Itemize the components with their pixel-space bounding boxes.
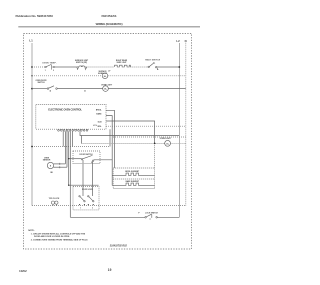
diagram border [24,34,192,250]
svg-text:19: 19 [108,268,112,272]
svg-text:FEF352AS: FEF352AS [102,14,117,18]
svg-text:BROIL ELEMENT: BROIL ELEMENT [125,171,140,173]
wire bake stub 2 [112,184,113,186]
wire N bus [185,43,187,206]
svg-text:ELECTRONIC OVEN CONTROL: ELECTRONIC OVEN CONTROL [48,109,82,112]
wire door switch exit [94,159,112,161]
wire drop 5 [69,131,71,217]
svg-text:LOCK SWITCH: LOCK SWITCH [145,212,158,214]
wire L2 bus [178,43,180,217]
wire rowB segment a [32,75,102,77]
svg-text:MDL: MDL [98,126,103,128]
header rule [18,26,200,28]
svg-text:SWITCH (RF): SWITCH (RF) [76,62,88,64]
wire rowB segment b [108,75,186,77]
svg-text:SL: SL [104,76,107,78]
svg-text:OL: OL [166,143,170,145]
wire latch drop 1 [82,160,84,196]
node junction feed-L1 [31,146,33,148]
svg-text:NOTE:: NOTE: [28,230,35,232]
svg-text:S: S [50,166,52,168]
switch S4 [47,86,57,90]
node junction rowB-L1 [31,75,32,76]
connector P1 pins [58,129,88,131]
wire rung1 segment c [87,66,115,68]
svg-text:2: 2 [53,70,54,72]
resistor R1 [115,65,131,67]
door switch box [73,151,100,164]
svg-text:TOD CLOCK: TOD CLOCK [49,198,60,200]
node junction rung1-L1 [31,66,33,68]
svg-text:N: N [185,39,187,43]
svg-text:BAKE: BAKE [96,113,102,116]
elements box divider [113,178,154,180]
wire light line b [171,142,186,144]
wire drop 3 [66,131,68,167]
wire bottom rung to L2 [157,216,179,218]
wire EOC exit MDL to N [106,125,186,127]
wire drop 2 [64,131,66,164]
svg-text:HEAT SWITCH: HEAT SWITCH [145,58,161,61]
wire rung2 segment c [108,88,186,90]
svg-text:OL: OL [104,89,108,91]
svg-text:SENSOR: SENSOR [43,159,51,161]
svg-text:DLB: DLB [98,121,102,123]
node junction rung2-L1 [31,88,33,90]
svg-text:WIRING (SCHEMATIC): WIRING (SCHEMATIC) [96,22,123,26]
wire door switch entry [69,158,82,160]
wire drop 6 [72,131,74,146]
svg-text:LF: LF [108,70,110,72]
svg-text:10/02: 10/02 [19,269,27,273]
switch S2 [77,66,87,70]
svg-text:2. CONNECTORS VIEWED FROM TER: 2. CONNECTORS VIEWED FROM TERMINAL SIDE … [31,238,88,241]
wire drop 4 [68,131,70,185]
wire drop 1 [62,131,64,146]
svg-text:L1: L1 [29,39,33,43]
wire L1 bus [31,43,33,206]
oven sensor stubs [54,163,66,165]
svg-text:P: P [138,212,140,214]
svg-text:SURF. UNIT: SURF. UNIT [117,62,128,64]
wire bake stub 1 [112,174,113,176]
svg-text:OVEN LIGHT: OVEN LIGHT [160,138,172,140]
door lock switch S6 [79,196,85,203]
door lock switch S7 [88,196,94,203]
wire light feed riser [81,136,83,144]
wire rung1 segment e [157,66,179,68]
EOC control board U1 [36,104,106,129]
svg-text:OVEN TEMP.: OVEN TEMP. [42,62,57,64]
switch S8 [145,214,158,219]
wire rung2 segment b [57,88,102,90]
wire rung2 segment a [32,88,47,90]
node junction rung1-L2 [178,66,180,68]
elements box [113,168,154,189]
wire latch drop 2 [92,161,94,196]
wire bottom rung solid [70,216,145,218]
svg-text:316418702 R02: 316418702 R02 [110,244,128,247]
svg-text:Publication No. 5995417953: Publication No. 5995417953 [16,14,54,18]
wire EOC exit broil [106,110,114,168]
svg-text:DOOR AND DOOR LOCKED IN OPEN.: DOOR AND DOOR LOCKED IN OPEN. [34,235,70,238]
wire EOC exit DLB [106,121,155,143]
wire rung1 segment a [32,66,45,68]
node junction DLB-light [154,143,156,145]
svg-text:BAKE ELEMENT: BAKE ELEMENT [126,180,140,183]
wire rung1 segment d [130,66,148,68]
wire mid dashed to N [113,136,186,138]
svg-text:BK: BK [50,172,53,174]
svg-text:2: 2 [92,208,93,210]
resistor R3 bake element [113,183,154,185]
lamp DS2 [103,86,109,92]
svg-text:1: 1 [80,208,81,210]
svg-text:DOOR LOCK: DOOR LOCK [82,189,94,191]
svg-text:1: 1 [45,70,46,72]
door lock box [73,186,99,210]
switch S1 [45,64,55,69]
oven sensor RT1 [47,162,53,168]
lamp DS3 [165,140,171,146]
switch S3 [148,62,158,69]
switch S4 terminal marks [50,90,51,91]
TOD clock M1 [51,201,58,206]
wire rung1 segment b [54,66,77,68]
svg-text:SWITCH: SWITCH [37,82,45,84]
wire latch feed horizontal [69,184,99,186]
door lock terminal marks [79,204,80,205]
door switch S5 [81,155,94,163]
svg-text:L2: L2 [176,39,180,43]
svg-text:BROIL: BROIL [96,109,102,111]
wire L1 feed line [32,146,110,148]
wire drop 7 to L2 [80,131,179,135]
resistor R2 broil element [113,173,154,175]
wire light line a [82,142,165,144]
wire dashed rung bottom [32,205,186,207]
lamp DS1 [102,73,108,79]
wire EOC exit bake [106,116,112,186]
svg-text:1. CIRCUIT SHOWN WITH ALL CON: 1. CIRCUIT SHOWN WITH ALL CONTROLS OFF A… [31,233,86,236]
